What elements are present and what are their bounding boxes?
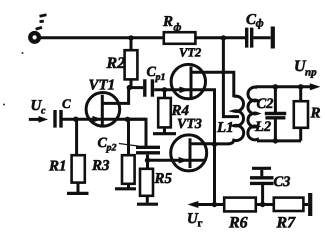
svg-text:R: R <box>162 14 173 30</box>
svg-text:C2: C2 <box>257 96 274 112</box>
svg-text:p1: p1 <box>155 72 166 83</box>
svg-text:L1: L1 <box>216 120 234 136</box>
svg-text:R5: R5 <box>154 171 173 187</box>
svg-text:ф: ф <box>174 22 182 34</box>
svg-text:C: C <box>62 96 71 111</box>
svg-text:R4: R4 <box>171 103 190 119</box>
svg-text:p2: p2 <box>106 143 117 154</box>
svg-text:R7: R7 <box>276 215 297 232</box>
svg-text:VT1: VT1 <box>89 78 116 94</box>
svg-text:ф: ф <box>256 18 264 30</box>
svg-text:г: г <box>198 218 203 230</box>
svg-text:VT2: VT2 <box>179 45 201 59</box>
svg-text:VT3: VT3 <box>177 117 202 132</box>
svg-text:R6: R6 <box>228 215 248 232</box>
svg-text:R: R <box>310 106 321 122</box>
svg-text:C3: C3 <box>274 174 291 190</box>
svg-text:c: c <box>41 106 46 117</box>
svg-text:R3: R3 <box>91 158 110 174</box>
svg-text:пр: пр <box>305 67 317 79</box>
svg-text:R1: R1 <box>48 159 67 175</box>
svg-text:L2: L2 <box>254 119 271 135</box>
svg-text:R2: R2 <box>106 55 126 72</box>
